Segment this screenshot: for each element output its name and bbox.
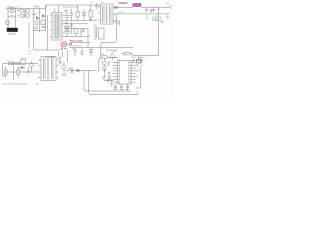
svg-text:C1 R2 R5 D2 R9: C1 R2 R5 D2 R9 [63,7,79,9]
bulk capacitor C1 [64,9,70,21]
diode D20 [18,66,24,69]
vertical wire aux [13,61,15,80]
X-capacitor CX2 [8,16,16,17]
cap C30 [71,68,73,74]
svg-text:16: 16 [133,61,135,63]
T2 top pin stubs [55,5,59,13]
capacitor C15 [107,79,114,86]
resistor R40 [9,62,13,64]
rectifier diode D21 [77,69,80,72]
capacitor C3 [95,3,98,9]
wire from transformer pin to inductor [116,6,133,8]
svg-text:d1 d2: d1 d2 [34,13,39,15]
fuse F1 [11,7,15,9]
resistor R42 vertical [5,67,8,78]
green ground symbol [166,14,170,19]
bridge rectifier BR1 [33,5,46,32]
output inductor L2 (magenta box) [133,3,141,6]
svg-text:c9 r8: c9 r8 [131,56,136,59]
feedback sense wire (gray) [132,7,159,55]
caps below IC [114,84,129,90]
aux transformer T3 [38,57,59,81]
svg-text:C5 1n R7 47k D3 1N4148: C5 1n R7 47k D3 1N4148 [2,84,28,86]
wire aux top bus [3,63,39,65]
wire filter to bridge [33,9,35,51]
resistor R41 [15,62,19,64]
svg-text:NAB2400: NAB2400 [119,2,129,5]
transistor Q1 [65,29,69,37]
purple end tick [169,5,171,9]
svg-text:C9 R15 D6: C9 R15 D6 [72,45,83,47]
svg-text:1: 1 [114,61,115,63]
snubber capacitor C2 [70,9,73,21]
X-capacitor CX1 [8,11,16,12]
rectifier diode D10 (purple) [115,6,118,9]
wire transformer bottom bracket [113,21,120,26]
trimmer wire [140,55,142,64]
wire riser left [28,22,30,48]
snubber resistor R1 [76,5,79,21]
AC line wire L [7,9,9,29]
primary upper return wire [62,23,88,25]
plus mark aux [69,68,71,70]
small gray caps on rails [151,9,152,13]
trimmer wire lower [136,68,141,88]
svg-text:T2 EE25: T2 EE25 [46,57,56,59]
wire T2 left leg [47,15,49,50]
transistor Q3 [102,59,106,67]
green pad [161,21,163,23]
wire down to lower circuit [67,50,69,62]
power connector J1 [7,28,18,32]
svg-text:VR1: VR1 [141,58,146,60]
trimmer arrow [139,65,142,68]
green label box [153,14,161,21]
left edge wire [3,64,7,77]
IC right pin stubs [131,63,136,83]
startup resistor R2 [89,5,92,21]
main transformer T1 [98,4,116,24]
svg-text:C7: C7 [90,2,93,4]
switch S1 [6,21,10,24]
caps right of T3 [58,57,61,65]
resistor R20 [102,56,107,58]
ground below IC [114,89,129,91]
wire aux mid bus [4,71,38,73]
resistor R25 right of IC [136,60,142,64]
transistor Q7 [62,73,65,76]
filter cap C21 (purple) [152,7,155,12]
svg-text:n1 z: n1 z [28,51,32,53]
plus mark [158,8,160,10]
wire lower primary bus [62,36,90,38]
wire primary bus [62,20,97,22]
ground aux [27,67,30,74]
transistor Q4 [102,62,111,72]
wire bottom return 2 [89,74,138,94]
caps cluster left of IC [103,69,114,81]
capacitor C5 [80,48,83,57]
resistor R33 [121,52,134,55]
primary switch area wire [64,28,88,30]
ground dashes under connector [8,32,17,35]
IC right wires [136,65,140,76]
diode D2 [81,29,84,37]
stub wires into aux [59,52,63,58]
IC left pin stubs [113,63,118,83]
resistor R43 vertical [17,67,20,78]
wire vertical drop [87,29,89,48]
wire bottom return 1 [84,74,131,91]
wire aux to diode bus [66,70,97,72]
green cap drop [146,14,149,19]
plus marks [17,9,20,15]
transistor Q5 [30,61,34,72]
wire IC bottom to bus [122,90,124,92]
red arrow marker [70,40,72,42]
wire riser to caps [84,71,89,75]
+12V rail (purple) [141,6,171,8]
IC internal pin ticks [118,63,132,83]
capacitor C4 [72,48,77,57]
wire mid bus [70,47,133,49]
svg-text:Q2: Q2 [36,84,40,86]
small parts row under feedback [132,59,144,63]
ground rail (green) [113,13,170,15]
fuse highlight circle (red) [61,42,67,49]
filter cap C20 (purple) [145,7,148,12]
standby transformer T2 [50,13,65,41]
line filter choke L1 [20,9,35,18]
transistor Q6 [62,62,66,72]
svg-text:a2: a2 [28,53,31,55]
svg-text:B+: B+ [167,3,170,5]
control IC U2 [118,61,132,85]
diode D3 [89,48,92,57]
capacitor C6 right of T2 [65,22,73,34]
svg-text:+5V: +5V [154,19,159,21]
green feedback wire [99,14,117,72]
wire sense line [70,42,90,44]
rect part [21,60,26,65]
AC neutral wire N [15,9,17,29]
wire from bridge to fuse [34,47,63,51]
resistor R3 [74,29,78,37]
svg-text:R4 C3: R4 C3 [21,58,28,60]
svg-text:4A7 250V: 4A7 250V [72,39,84,43]
optocoupler U3 [95,24,104,40]
svg-text:BD1: BD1 [36,7,41,9]
wire drop to mid bus [70,43,72,48]
purple stub lower [137,55,140,60]
zener TL431 [107,53,118,61]
wire AC top rail [6,5,101,9]
diode D1 [82,9,85,21]
svg-text:Q1 R11 D4: Q1 R11 D4 [64,26,75,28]
wire fuse to riser [67,43,72,45]
